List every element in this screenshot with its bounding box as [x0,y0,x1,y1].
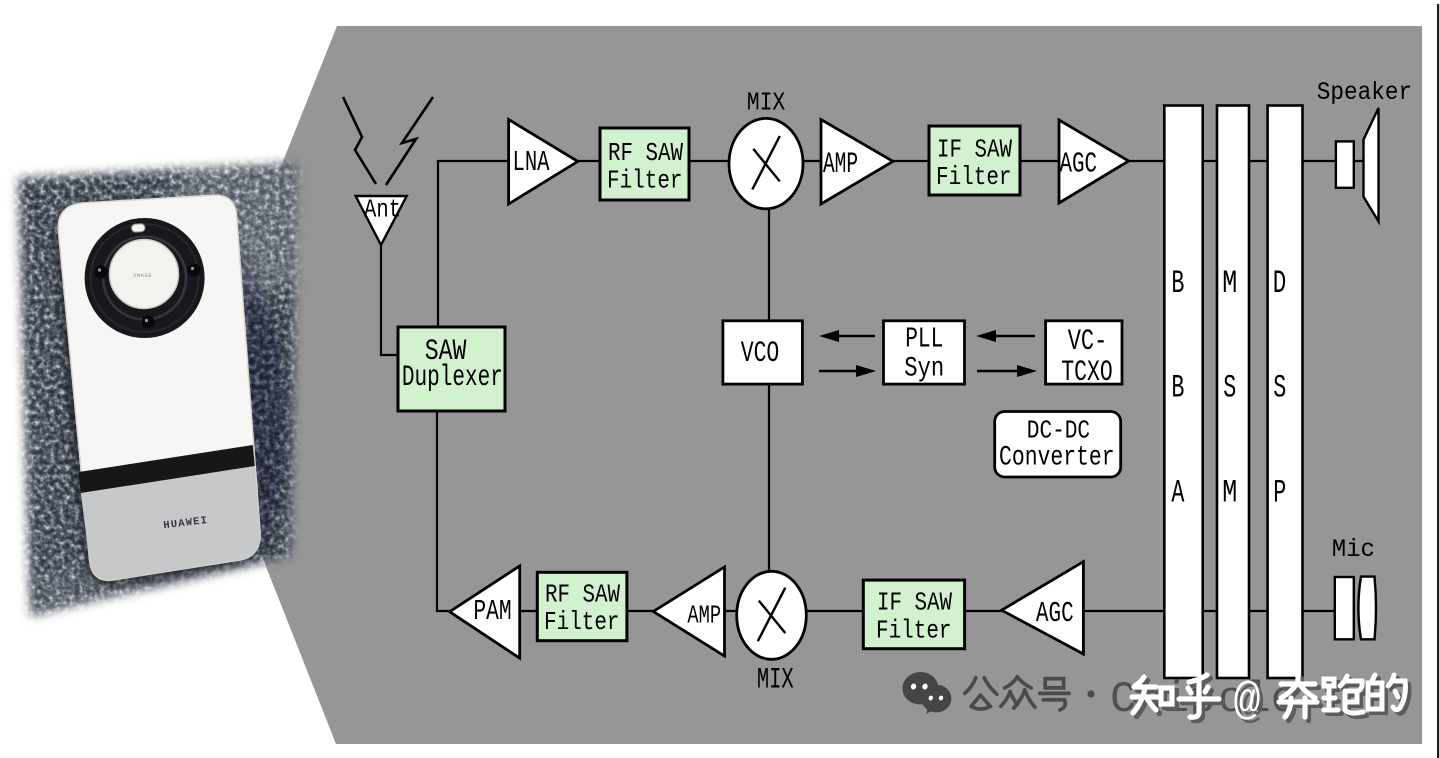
phone black band [79,445,255,493]
svg-text:M: M [1222,475,1237,512]
mixer MIX2 [737,571,807,697]
filter IF SAW (top) [929,126,1020,195]
arrow VC-TCXO to PLL [976,330,1035,342]
carpet highlight top-right [165,135,345,295]
wire corner vertical antenna-to-duplexer [437,160,439,328]
svg-text:Syn: Syn [904,354,944,384]
filter IF SAW (bottom) [863,580,964,649]
svg-text:AMP: AMP [687,602,721,632]
IC bar MSM [1217,106,1249,679]
svg-text:RF SAW: RF SAW [545,581,621,610]
svg-text:LNA: LNA [513,146,551,179]
oscillator VC-TCXO [1046,321,1122,389]
lightning bolt left [343,97,376,184]
svg-text:IF SAW: IF SAW [877,590,953,619]
flash pill [131,224,145,233]
wire VCO to MIX2 [768,385,770,573]
wire antenna lead [381,244,399,355]
arrow PLL to VC-TCXO [977,365,1037,377]
svg-text:TCXO: TCXO [1061,356,1112,389]
svg-text:A: A [1171,475,1184,512]
watermark gray char 众 [1001,677,1035,708]
watermark gray char 号 [1040,679,1069,710]
watermark gray char 公 [965,678,997,709]
filter RF SAW (top) [600,128,689,200]
IC bar DSP [1268,106,1303,679]
svg-text:D: D [1273,266,1287,303]
antenna Ant symbol [356,196,407,245]
watermark gray dot [1087,690,1094,697]
amplifier AGC (top) [1059,120,1129,203]
synthesizer PLL Syn [884,321,965,384]
amplifier LNA [509,120,578,205]
svg-text:DC-DC: DC-DC [1027,417,1090,447]
svg-text:S: S [1223,370,1236,407]
watermark white char 知 (with shadow) [1132,677,1176,717]
svg-text:S: S [1273,370,1286,407]
wire bottom row [449,610,1335,612]
svg-text:VCO: VCO [741,337,780,370]
IC bar BBA [1164,106,1202,679]
mixer MIX1 [729,89,803,209]
duplexer SAW Duplexer [398,327,505,411]
speaker icon [1336,108,1379,221]
camera inner circle [110,240,179,309]
wire MIX1 to VCO [768,207,770,322]
svg-text:B: B [1171,370,1184,407]
svg-text:RF SAW: RF SAW [608,140,684,169]
wire top row [438,160,1364,162]
watermark white char 的 (with shadow) [1368,675,1409,713]
phone shadow [58,201,301,615]
camera lens dot bottom [142,316,155,329]
svg-text:PLL: PLL [905,323,943,356]
svg-text:MIX: MIX [747,89,786,119]
svg-text:P: P [1273,475,1286,512]
phone contact shadow [53,201,255,586]
svg-text:B: B [1171,266,1184,303]
svg-text:@: @ [1234,677,1261,728]
oscillator VCO [723,321,803,384]
photo of phone on carpet [6,135,345,645]
amplifier AMP (top) [821,120,893,205]
arrow PLL to VCO [819,330,875,342]
svg-text:VC-: VC- [1068,325,1108,358]
svg-text:M: M [1222,266,1237,303]
camera lens dot left [95,266,108,279]
wire duplexer-to-PAM vertical [437,410,451,611]
svg-text:AGC: AGC [1036,597,1074,630]
arrow VCO to PLL [819,365,876,377]
carpet texture [6,152,318,630]
svg-text:Duplexer: Duplexer [402,361,503,394]
svg-text:Speaker: Speaker [1317,79,1412,107]
watermark white char 乎 (with shadow) [1179,675,1223,721]
camera lens dot right [188,264,201,277]
wechat icon [903,672,952,714]
lightning bolt right [386,97,433,185]
watermark white char 奔 (with shadow) [1279,675,1321,721]
svg-text:Filter: Filter [936,164,1012,193]
carpet highlight bottom [30,555,270,645]
right border line [1437,4,1439,758]
svg-text:Filter: Filter [607,168,683,197]
svg-text:IF SAW: IF SAW [937,136,1013,165]
camera ring [85,218,205,338]
mic icon [1335,577,1376,640]
svg-text:Filter: Filter [876,617,952,646]
converter DC-DC [995,412,1121,478]
svg-text:MIX: MIX [757,662,794,697]
svg-text:AMP: AMP [823,147,858,182]
speaker label [1317,79,1412,107]
svg-text:Ant: Ant [364,197,401,226]
mic label [1332,536,1375,564]
svg-text:XMAGE: XMAGE [133,273,152,279]
filter RF SAW (bottom) [537,572,627,640]
svg-text:PAM: PAM [473,595,511,628]
phone lower metal section [81,464,261,580]
svg-text:Mic: Mic [1332,536,1375,564]
amplifier AGC (bottom, pointing left) [1002,562,1084,654]
amplifier AMP (bottom, pointing left) [653,567,724,656]
svg-text:Converter: Converter [999,443,1115,473]
watermark white char 跑 (with shadow) [1324,676,1367,717]
amplifier PAM (bottom, pointing left) [450,566,520,658]
svg-text:Filter: Filter [544,609,620,638]
phone body [58,195,260,580]
svg-text:AGC: AGC [1060,148,1098,181]
